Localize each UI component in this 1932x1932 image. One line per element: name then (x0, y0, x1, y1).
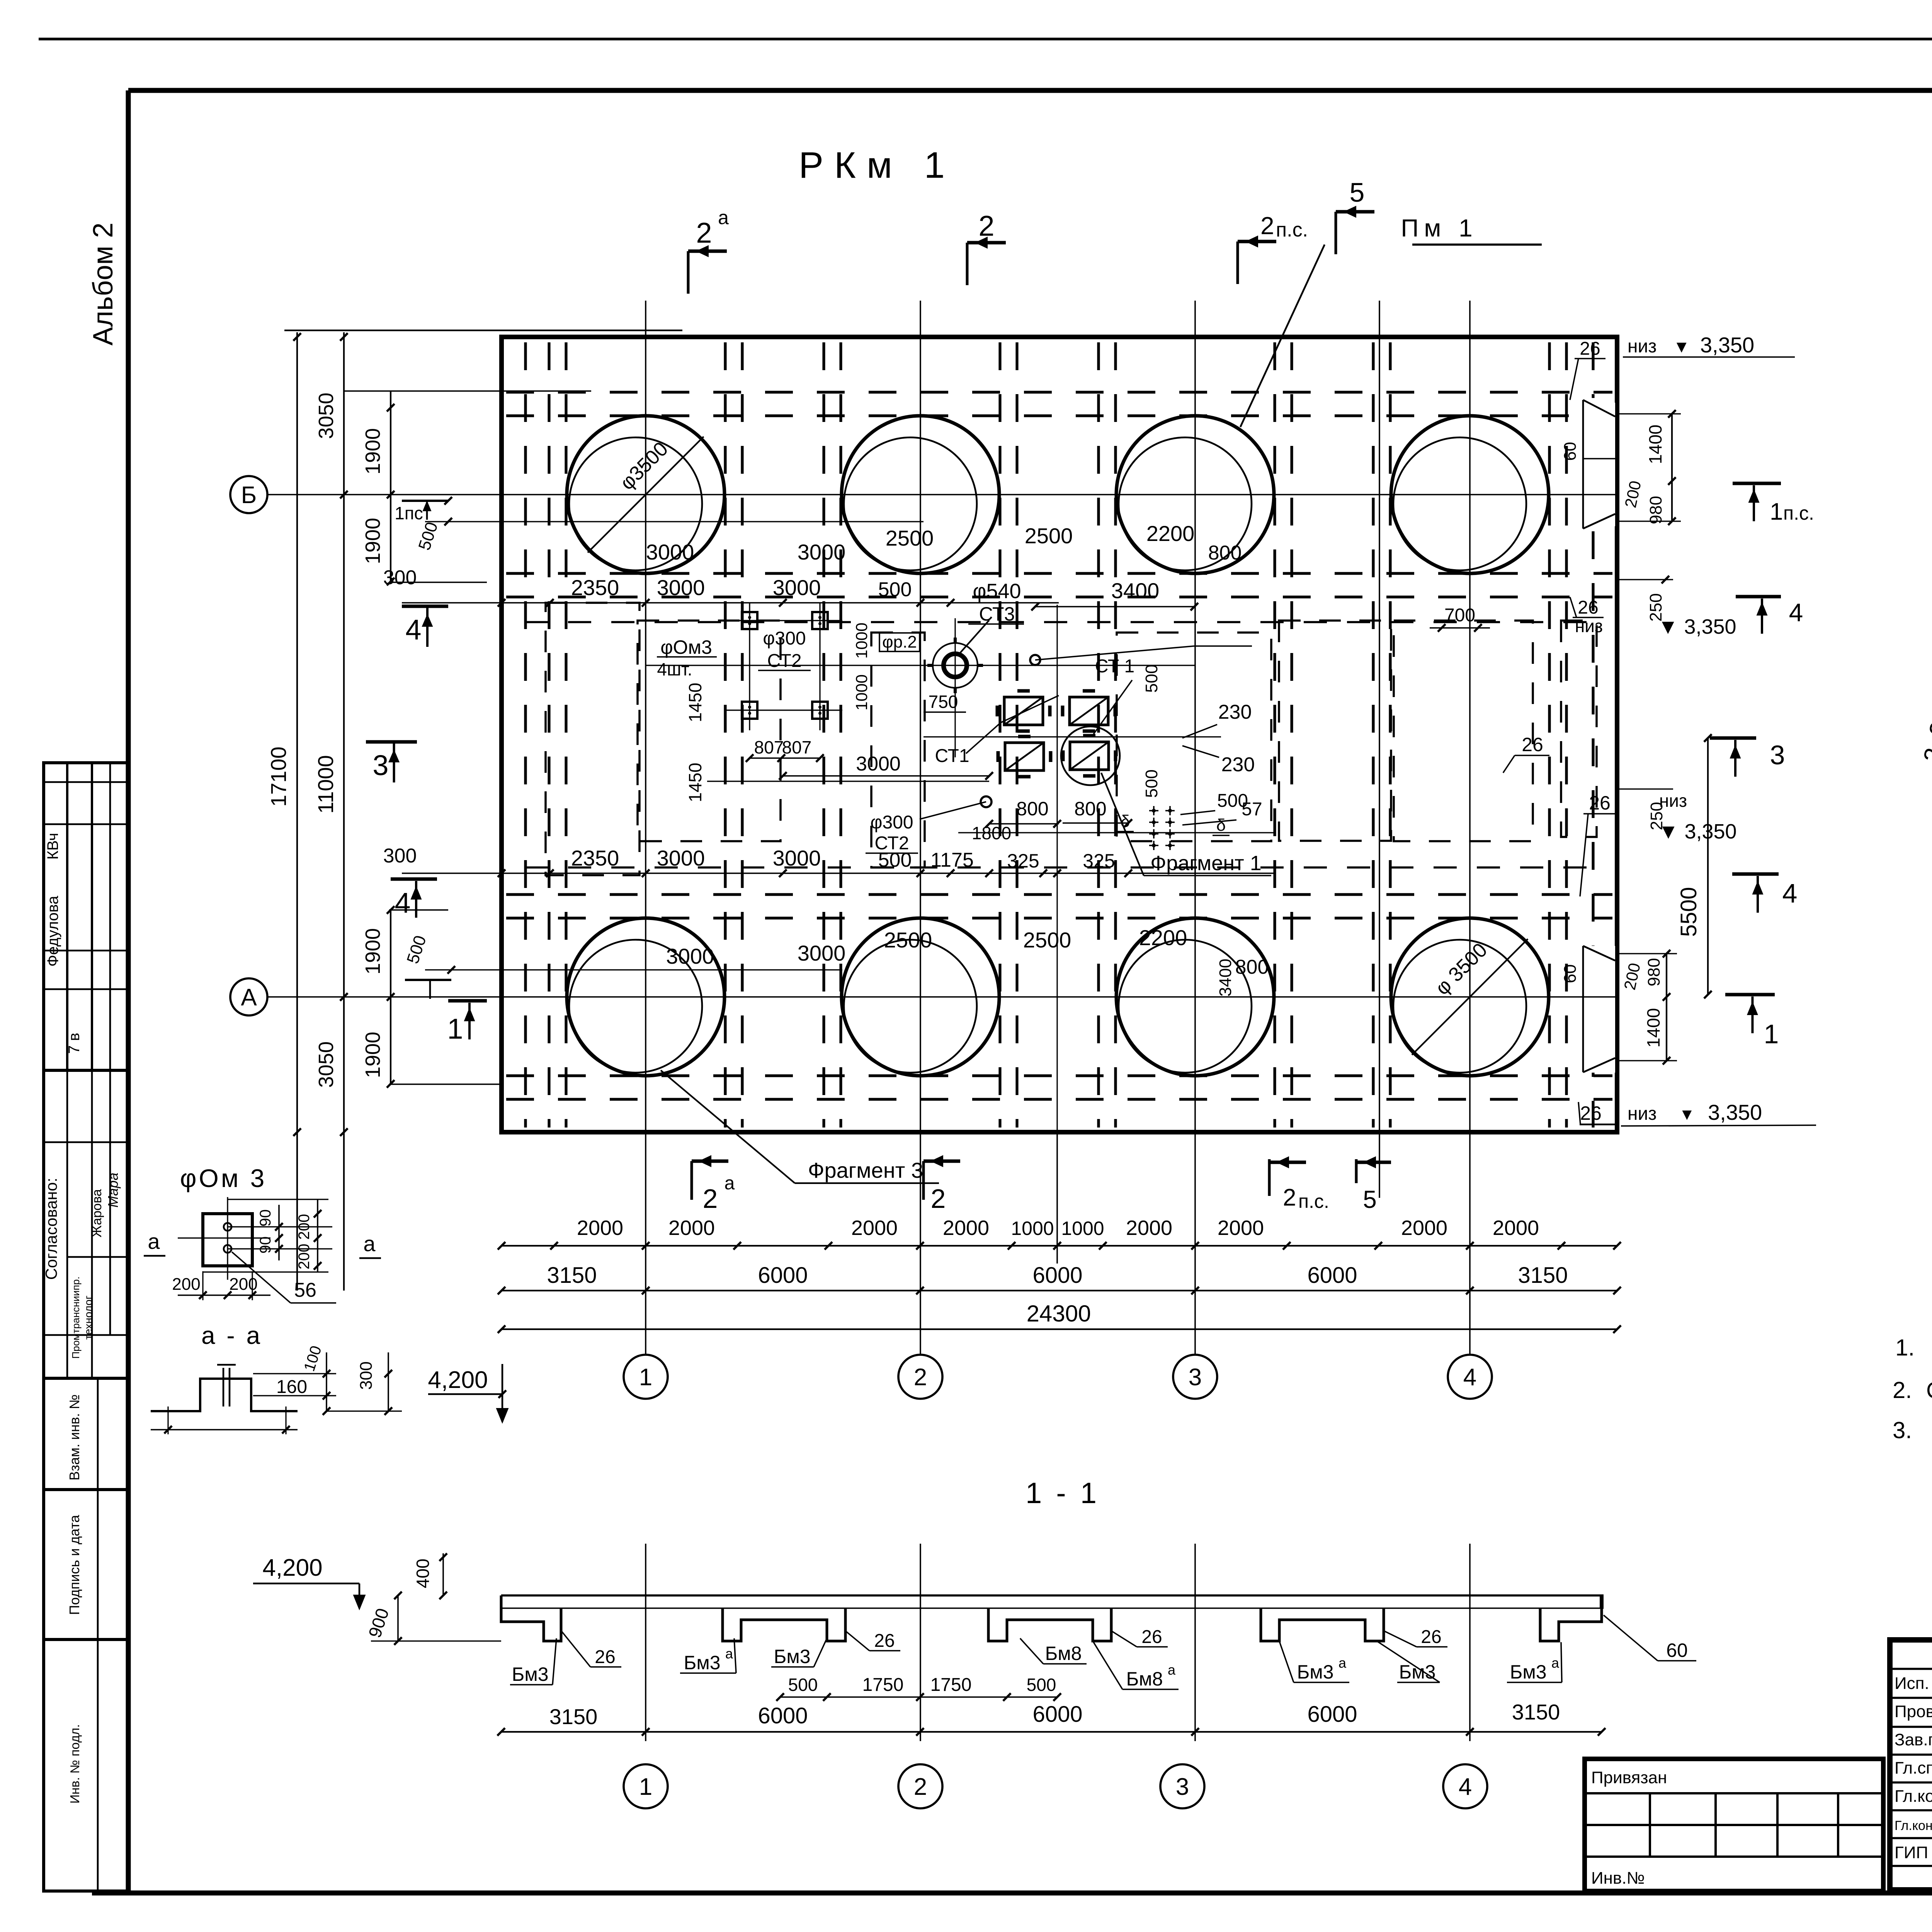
svg-text:φОм 3: φОм 3 (180, 1164, 267, 1192)
svg-text:п.с.: п.с. (1276, 219, 1308, 241)
svg-text:Зав.гр: Зав.гр (1895, 1730, 1932, 1749)
svg-text:4шт.: 4шт. (657, 659, 692, 679)
svg-text:1.: 1. (1895, 1335, 1915, 1361)
svg-text:а: а (148, 1229, 160, 1253)
svg-text:1: 1 (1770, 498, 1783, 525)
svg-text:а: а (1338, 1655, 1347, 1671)
svg-text:2500: 2500 (1023, 928, 1071, 952)
svg-text:800: 800 (1208, 542, 1242, 564)
svg-text:2200: 2200 (1146, 521, 1195, 546)
svg-text:6000: 6000 (758, 1703, 808, 1728)
svg-text:6000: 6000 (1032, 1702, 1082, 1727)
svg-text:500: 500 (878, 578, 912, 601)
svg-text:2500: 2500 (884, 928, 932, 952)
svg-text:1: 1 (1764, 1019, 1779, 1049)
svg-text:1900: 1900 (361, 428, 384, 474)
svg-text:низ: низ (1628, 1104, 1656, 1124)
svg-text:1450: 1450 (685, 763, 705, 802)
svg-text:4: 4 (1463, 1364, 1476, 1391)
svg-text:a: a (718, 207, 729, 228)
svg-text:26: 26 (1580, 338, 1600, 359)
svg-text:Жарова: Жарова (90, 1189, 104, 1237)
svg-text:Бм3: Бм3 (684, 1652, 721, 1673)
svg-text:Бм3: Бм3 (774, 1646, 811, 1667)
svg-text:6000: 6000 (1307, 1702, 1357, 1727)
svg-text:2: 2 (1260, 212, 1274, 240)
svg-text:КВч: КВч (44, 833, 61, 860)
svg-text:ГИП: ГИП (1895, 1843, 1928, 1862)
svg-text:2: 2 (1283, 1184, 1296, 1211)
svg-text:1175: 1175 (930, 849, 974, 871)
svg-text:п.с.: п.с. (1783, 502, 1814, 524)
svg-text:250: 250 (1646, 593, 1665, 621)
svg-text:2500: 2500 (886, 526, 934, 550)
svg-text:26: 26 (1578, 597, 1598, 618)
svg-text:160: 160 (276, 1377, 307, 1397)
svg-text:300: 300 (383, 845, 417, 867)
svg-text:1: 1 (639, 1364, 652, 1391)
svg-text:2000: 2000 (1401, 1216, 1447, 1240)
svg-text:6000: 6000 (1307, 1263, 1357, 1288)
svg-text:Бм3: Бм3 (1399, 1661, 1436, 1683)
svg-text:3400: 3400 (1216, 959, 1235, 997)
svg-text:57: 57 (1242, 799, 1262, 820)
svg-text:2000: 2000 (1126, 1216, 1172, 1240)
svg-text:СТ2: СТ2 (874, 833, 909, 854)
svg-text:▼ 3,350: ▼ 3,350 (1658, 820, 1737, 843)
svg-text:3150: 3150 (547, 1263, 597, 1288)
svg-text:5: 5 (1363, 1185, 1377, 1213)
svg-text:3: 3 (1770, 740, 1785, 770)
svg-text:3: 3 (372, 749, 388, 781)
svg-text:Бм8: Бм8 (1045, 1643, 1082, 1664)
svg-text:3000: 3000 (798, 941, 846, 965)
svg-text:400: 400 (413, 1559, 433, 1588)
svg-text:6000: 6000 (758, 1263, 808, 1288)
svg-text:200: 200 (172, 1275, 200, 1294)
svg-text:700: 700 (1444, 605, 1475, 626)
svg-text:7 в: 7 в (66, 1033, 83, 1054)
svg-text:СПЕЦИФИКАЦИЮ НА РКм 1 см. Л: СПЕЦИФИКАЦИЮ НА РКм 1 см. ЛИСТЫ 18 и 19. (1926, 1378, 1932, 1403)
svg-text:3150: 3150 (1512, 1700, 1560, 1724)
svg-text:2: 2 (931, 1184, 946, 1214)
svg-text:3000: 3000 (856, 753, 901, 775)
svg-text:Альбом 2: Альбом 2 (88, 223, 119, 345)
svg-text:а: а (1168, 1662, 1176, 1678)
svg-text:3000: 3000 (773, 846, 821, 870)
svg-text:3000: 3000 (657, 575, 705, 600)
svg-text:56: 56 (294, 1279, 316, 1301)
svg-text:1000: 1000 (852, 674, 871, 710)
svg-text:Пм 1: Пм 1 (1401, 214, 1478, 242)
svg-text:1000: 1000 (1011, 1218, 1054, 1239)
svg-text:200: 200 (296, 1214, 313, 1240)
svg-text:3,350: 3,350 (1700, 333, 1754, 357)
svg-text:3050: 3050 (315, 393, 338, 439)
svg-text:6000: 6000 (1032, 1263, 1082, 1288)
svg-text:Промтрансниипр.: Промтрансниипр. (70, 1277, 82, 1359)
svg-text:500: 500 (1142, 769, 1161, 798)
svg-text:17100: 17100 (266, 747, 291, 807)
svg-text:низ: низ (1575, 616, 1603, 636)
svg-text:3400: 3400 (1111, 578, 1160, 603)
svg-text:Инв.№: Инв.№ (1591, 1869, 1645, 1888)
svg-text:26: 26 (1421, 1627, 1441, 1647)
svg-text:26: 26 (1589, 792, 1611, 814)
svg-text:1000: 1000 (852, 622, 871, 658)
svg-text:Мара: Мара (105, 1173, 121, 1207)
svg-text:4: 4 (405, 614, 421, 646)
svg-text:5500: 5500 (1676, 887, 1701, 937)
svg-text:800: 800 (1016, 798, 1048, 820)
svg-text:1800: 1800 (972, 823, 1011, 843)
svg-text:▼: ▼ (1679, 1105, 1695, 1123)
svg-text:А: А (241, 984, 257, 1011)
svg-text:3150: 3150 (549, 1704, 598, 1729)
svg-text:СТ1: СТ1 (935, 746, 969, 766)
svg-text:φ300: φ300 (870, 812, 913, 833)
svg-text:1750: 1750 (930, 1675, 972, 1695)
svg-text:3000: 3000 (657, 846, 705, 870)
svg-text:СТ3: СТ3 (979, 603, 1015, 625)
svg-text:500: 500 (1142, 664, 1161, 692)
svg-text:Исп.: Исп. (1895, 1674, 1929, 1693)
svg-text:Гл.конТ.о: Гл.конТ.о (1895, 1818, 1932, 1833)
svg-text:1000: 1000 (1061, 1218, 1104, 1239)
svg-text:РКм 1: РКм 1 (799, 145, 956, 186)
svg-text:230: 230 (1218, 701, 1252, 723)
svg-text:Гл.сп.: Гл.сп. (1895, 1759, 1932, 1777)
svg-text:26: 26 (1522, 734, 1543, 755)
svg-text:325: 325 (1007, 850, 1039, 872)
svg-text:Инв. № подл.: Инв. № подл. (68, 1724, 82, 1804)
svg-text:3050: 3050 (315, 1041, 338, 1088)
svg-text:▼: ▼ (1673, 337, 1690, 356)
svg-text:▼ 3,350: ▼ 3,350 (1658, 615, 1736, 638)
svg-text:Взам. инв. №: Взам. инв. № (66, 1394, 82, 1480)
svg-text:4: 4 (1459, 1774, 1472, 1800)
svg-text:2: 2 (914, 1364, 927, 1391)
svg-text:а: а (363, 1231, 376, 1256)
svg-text:Согласовано:: Согласовано: (42, 1178, 60, 1280)
svg-text:26: 26 (1141, 1627, 1162, 1647)
svg-text:Пров.: Пров. (1895, 1702, 1932, 1721)
svg-text:Привязан: Привязан (1591, 1768, 1667, 1787)
svg-text:4,200: 4,200 (262, 1554, 322, 1581)
svg-text:2: 2 (914, 1774, 927, 1800)
svg-text:60: 60 (1666, 1639, 1688, 1661)
svg-text:Фрагмент 3: Фрагмент 3 (808, 1158, 923, 1182)
svg-text:60: 60 (1561, 964, 1580, 983)
svg-text:1пс: 1пс (395, 503, 423, 523)
svg-text:1900: 1900 (361, 518, 384, 564)
svg-text:90: 90 (257, 1236, 274, 1254)
svg-text:1900: 1900 (361, 928, 384, 975)
svg-text:а: а (1551, 1655, 1560, 1671)
svg-text:4: 4 (1782, 878, 1798, 908)
svg-text:2200: 2200 (1139, 925, 1187, 950)
svg-text:11000: 11000 (313, 755, 338, 814)
svg-text:500: 500 (788, 1675, 818, 1695)
svg-text:2: 2 (703, 1184, 718, 1214)
svg-text:низ: низ (1628, 336, 1656, 357)
svg-text:3000: 3000 (646, 540, 694, 564)
svg-text:1: 1 (639, 1774, 652, 1800)
svg-text:200: 200 (296, 1244, 313, 1270)
svg-text:δ: δ (1216, 816, 1226, 835)
svg-text:Бм3: Бм3 (1297, 1661, 1334, 1683)
svg-text:3000: 3000 (773, 575, 821, 600)
svg-text:800: 800 (1235, 956, 1269, 978)
svg-text:4,200: 4,200 (428, 1367, 488, 1393)
svg-text:Федулова: Федулова (44, 896, 61, 967)
svg-text:1: 1 (447, 1013, 463, 1045)
svg-text:230: 230 (1221, 753, 1255, 776)
svg-text:26: 26 (874, 1631, 895, 1651)
svg-text:φ300: φ300 (763, 628, 806, 649)
svg-text:26: 26 (1580, 1102, 1602, 1124)
svg-text:а: а (725, 1646, 733, 1662)
svg-text:2000: 2000 (577, 1216, 623, 1240)
svg-text:24300: 24300 (1027, 1301, 1091, 1327)
svg-text:a: a (724, 1173, 735, 1194)
svg-text:60: 60 (1561, 442, 1580, 461)
svg-text:2000: 2000 (668, 1216, 715, 1240)
svg-text:200: 200 (229, 1275, 257, 1294)
svg-text:250: 250 (1647, 802, 1666, 830)
svg-text:2000: 2000 (851, 1216, 898, 1240)
svg-text:3: 3 (1189, 1364, 1202, 1391)
svg-text:2000: 2000 (1218, 1216, 1264, 1240)
svg-text:750: 750 (929, 692, 958, 712)
svg-text:807: 807 (782, 737, 812, 757)
svg-text:Гл.кон: Гл.кон (1895, 1787, 1932, 1806)
svg-text:300: 300 (357, 1361, 376, 1389)
svg-text:2350: 2350 (571, 575, 619, 600)
svg-text:800: 800 (1074, 798, 1106, 820)
svg-text:а - а: а - а (201, 1321, 262, 1349)
svg-text:1900: 1900 (361, 1032, 384, 1078)
svg-text:4: 4 (395, 887, 410, 919)
svg-text:СТ 1: СТ 1 (1095, 656, 1134, 677)
svg-text:90: 90 (257, 1209, 274, 1227)
svg-text:3150: 3150 (1518, 1263, 1568, 1288)
svg-text:технолог: технолог (82, 1296, 94, 1340)
svg-text:500: 500 (1027, 1675, 1056, 1695)
svg-text:2000: 2000 (1493, 1216, 1539, 1240)
svg-text:325: 325 (1083, 850, 1115, 872)
svg-text:980: 980 (1646, 496, 1665, 524)
svg-text:Подпись и дата: Подпись и дата (66, 1515, 82, 1615)
svg-text:3.: 3. (1893, 1417, 1912, 1443)
svg-text:Бм3: Бм3 (1510, 1661, 1547, 1683)
svg-text:4: 4 (1789, 598, 1803, 627)
svg-text:2: 2 (696, 217, 712, 249)
svg-text:1 - 1: 1 - 1 (1026, 1477, 1100, 1510)
svg-text:3: 3 (1176, 1774, 1189, 1800)
svg-text:φр.2: φр.2 (882, 633, 917, 651)
svg-text:807: 807 (754, 737, 784, 757)
svg-text:φОм3: φОм3 (660, 636, 712, 658)
svg-text:2.: 2. (1893, 1377, 1912, 1403)
svg-text:2350: 2350 (571, 846, 619, 870)
svg-text:2: 2 (978, 210, 994, 242)
svg-text:Бм3: Бм3 (512, 1663, 549, 1685)
svg-text:Б: Б (241, 482, 257, 509)
svg-text:26: 26 (595, 1647, 615, 1667)
svg-text:п.с.: п.с. (1298, 1190, 1329, 1212)
svg-text:3000: 3000 (798, 540, 846, 564)
svg-text:1450: 1450 (685, 683, 705, 722)
svg-text:2000: 2000 (943, 1216, 989, 1240)
svg-text:1750: 1750 (862, 1675, 904, 1695)
svg-text:3,350: 3,350 (1708, 1100, 1762, 1124)
svg-text:980: 980 (1645, 958, 1663, 986)
svg-text:2500: 2500 (1025, 524, 1073, 548)
svg-text:3000: 3000 (666, 944, 714, 968)
svg-text:Бм8: Бм8 (1126, 1668, 1163, 1690)
svg-text:1400: 1400 (1643, 1008, 1663, 1048)
svg-text:1400: 1400 (1645, 425, 1665, 464)
svg-text:φ540: φ540 (973, 580, 1021, 603)
svg-text:5: 5 (1350, 177, 1365, 207)
svg-text:Фрагмент 1: Фрагмент 1 (1150, 852, 1262, 875)
svg-text:СТ2: СТ2 (767, 651, 801, 671)
